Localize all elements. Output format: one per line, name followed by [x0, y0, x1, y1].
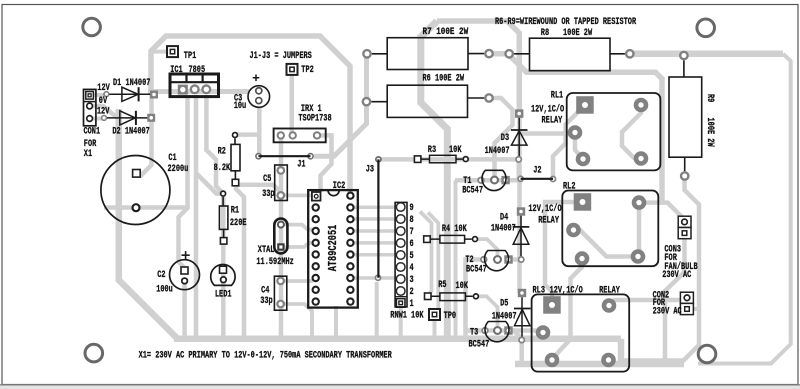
svg-text:12V: 12V	[97, 106, 110, 117]
wire IC2 to RNW1 link row 6 through J3 pad	[350, 276, 397, 280]
pad R5 right	[473, 293, 480, 300]
svg-text:1N4007: 1N4007	[491, 224, 516, 235]
wire IRX1 pin1 down through C5 XTAL C4 to ground bus	[279, 137, 284, 337]
svg-text:RNW1 10K: RNW1 10K	[390, 310, 423, 321]
svg-text:220E: 220E	[230, 218, 247, 229]
resistor R9 body	[669, 60, 702, 171]
svg-text:9: 9	[410, 203, 414, 214]
pad IRX1 pin 3	[313, 131, 321, 139]
pad R3 right	[462, 156, 469, 163]
wire IC1 left pad down to C2 plus	[179, 95, 188, 268]
pads IC2 left column	[312, 192, 321, 306]
pad D1 anode	[103, 91, 109, 97]
capacitor C3 body	[248, 75, 270, 108]
pad IC1 pin 3	[201, 84, 211, 94]
wire IC2 bottom stub to ground bus	[334, 306, 338, 339]
pad T1 collector square	[501, 176, 509, 184]
bottom window strip	[0, 384, 800, 385]
pad RL1 coil square	[576, 96, 594, 114]
resistor R3 body	[421, 155, 462, 163]
svg-text:2200u: 2200u	[168, 164, 189, 175]
svg-text:TSOP1738: TSOP1738	[298, 113, 331, 124]
pad C2 positive square	[181, 267, 188, 274]
pad D4 anode	[518, 256, 525, 263]
wire T3 collector to D5 anode	[508, 331, 522, 340]
pads RNW1 column	[395, 203, 407, 308]
pad D5 cathode square	[518, 289, 526, 297]
wire RL2 coil pad to RL3 coil pad	[545, 202, 583, 305]
pad D1 cathode square	[150, 91, 158, 99]
wire R2 bottom down to ground bus	[236, 186, 244, 339]
crystal XTAL body	[274, 219, 287, 254]
pad IRX1 pin 2	[289, 131, 297, 139]
svg-text:RELAY: RELAY	[538, 216, 559, 227]
pad R3 left square	[414, 156, 421, 163]
wire R4 right pad to T2 base	[475, 239, 498, 255]
pad D2 cathode square	[147, 114, 155, 122]
wire IC2 to RNW1 link row 1	[354, 206, 397, 210]
relay RL1 body	[567, 93, 661, 170]
pad R1 bottom square	[220, 238, 227, 245]
wire top ground feed to R8	[437, 21, 519, 114]
pad J3 top	[375, 156, 382, 163]
svg-text:BC547: BC547	[462, 185, 483, 196]
wire XTAL bottom to IC2 pin 4	[281, 243, 313, 247]
wire IC2 to RNW1 link row 5	[354, 253, 397, 257]
wire IC2 to RNW1 link row 2	[354, 217, 397, 221]
svg-text:R3: R3	[428, 145, 436, 156]
pad RL2 coil square	[574, 193, 592, 211]
pad RL3 top-right	[602, 298, 617, 313]
pad RL2 bottom-right	[631, 249, 646, 264]
pad RL2 bottom-left	[575, 251, 590, 266]
svg-text:6: 6	[410, 239, 414, 250]
wire ground bus horizontal	[174, 335, 621, 342]
wire CON3 bottom down to lower bus	[665, 234, 685, 365]
connector CON2 pads	[680, 292, 693, 314]
svg-text:J3: J3	[366, 165, 374, 176]
svg-text:R2: R2	[218, 146, 226, 157]
wire CON1 top pin to D1 anode	[90, 93, 106, 97]
pad TP2	[287, 64, 298, 75]
svg-text:33p: 33p	[260, 296, 273, 307]
wire T1 collector up to R6 right pad	[489, 98, 513, 176]
diode D3	[511, 118, 528, 156]
pad D3 anode	[515, 156, 522, 163]
svg-text:BC547: BC547	[466, 264, 487, 275]
svg-text:TP2: TP2	[301, 65, 314, 76]
pad T3 collector square	[504, 326, 512, 334]
pad T1 emitter	[477, 177, 484, 184]
pad R6 left	[362, 97, 372, 107]
pad TP0	[429, 309, 440, 320]
pad T3 emitter	[481, 327, 488, 334]
pad J1 right	[307, 153, 314, 160]
wire 12V column D3 D4 D5 cathode pads	[517, 114, 522, 293]
wire CON1 bottom pin to D2 anode	[90, 117, 104, 121]
svg-text:R6-R9=WIREWOUND OR TAPPED RESI: R6-R9=WIREWOUND OR TAPPED RESISTOR	[495, 17, 636, 28]
svg-text:D1 1N4007: D1 1N4007	[113, 78, 150, 89]
wire RL2 top-right down to bottom-right pad	[637, 203, 642, 257]
wire R5 right pad to T3 base	[476, 296, 498, 326]
wire R3 row J3 to D3 anode	[378, 157, 518, 162]
pad T2 emitter	[480, 256, 487, 263]
pad R4 right	[472, 236, 479, 243]
wire XTAL top to IC2 pin 5	[281, 225, 313, 230]
svg-text:RELAY: RELAY	[542, 115, 563, 126]
jumper J2	[521, 178, 553, 180]
svg-text:C5: C5	[263, 174, 271, 185]
resistor R8 body	[514, 38, 625, 70]
svg-text:8: 8	[410, 215, 414, 226]
svg-text:1N4007: 1N4007	[492, 311, 517, 322]
svg-text:CON1: CON1	[84, 127, 101, 138]
diode D4	[513, 216, 530, 256]
svg-text:R9: R9	[704, 94, 715, 102]
wire R1 LED1 column down to ground bus	[221, 195, 226, 339]
wire C3 negative down to J1 left pad	[257, 107, 262, 157]
pad C3 positive	[255, 87, 263, 95]
pad RL2 mid-left	[566, 223, 581, 238]
svg-text:5: 5	[410, 251, 414, 262]
pad LED1 anode square	[220, 266, 227, 273]
svg-text:LED1: LED1	[215, 289, 232, 300]
svg-text:R8: R8	[541, 28, 549, 39]
svg-text:TP1: TP1	[184, 51, 197, 62]
svg-text:7: 7	[410, 227, 414, 238]
svg-text:RL3: RL3	[533, 286, 546, 297]
svg-text:C4: C4	[261, 286, 269, 297]
svg-text:C1: C1	[168, 153, 176, 164]
wire T1 base row	[455, 178, 521, 183]
wire C4 bottom link	[281, 304, 312, 339]
pad J1 left	[255, 153, 262, 160]
svg-text:10u: 10u	[234, 101, 247, 112]
wire T1 emitter column	[454, 180, 458, 338]
wire right edge down	[698, 54, 791, 364]
wire R8 left pad diagonal to lower rail	[509, 55, 662, 203]
mounting hole top-right	[697, 19, 715, 37]
wire top-left vertical to TP1 junction	[151, 36, 350, 192]
wire RNW1 pin1 stub down	[399, 303, 403, 339]
pad RL1 top-right	[634, 98, 649, 113]
svg-text:TP0: TP0	[444, 311, 457, 322]
resistor R1 body	[219, 197, 228, 238]
connector CON1 body	[84, 89, 96, 125]
svg-text:12V,1C/O: 12V,1C/O	[550, 285, 583, 297]
resistor R5 body	[431, 293, 473, 301]
pad RL2 top-right	[632, 195, 647, 210]
pad T2 collector square	[504, 255, 512, 263]
pad RL1 bottom-right	[634, 151, 649, 166]
mounting hole bottom-right	[698, 345, 716, 363]
wire RL2 mid-left to bottom-right pad	[574, 230, 639, 257]
pad J3 bottom	[375, 274, 382, 281]
wire RL3 top-right pad to CON2 top	[609, 300, 681, 306]
wire C4 top to IC2 left pad	[281, 279, 313, 283]
pad D2 anode	[101, 115, 107, 121]
pad IRX1 pin 1	[277, 131, 285, 139]
svg-text:J1-J3 = JUMPERS: J1-J3 = JUMPERS	[250, 51, 312, 62]
relay RL3 body	[532, 294, 630, 371]
pad TP1	[167, 46, 178, 57]
capacitor C2 body	[170, 251, 200, 290]
wire T2 collector to D4 anode	[508, 257, 521, 262]
pad R7 right	[484, 49, 494, 59]
pad R8 right	[625, 49, 635, 59]
wire bus junction vertical	[618, 339, 625, 364]
wire IC2 to RNW1 link row 3	[354, 229, 397, 233]
pad D4 cathode square	[517, 207, 525, 215]
relay RL2 body	[562, 191, 658, 267]
svg-text:33p: 33p	[262, 189, 275, 200]
pad C5 bottom	[276, 191, 285, 200]
svg-text:D5: D5	[500, 299, 508, 310]
pad RL1 bottom-left	[576, 152, 591, 167]
wire branch to R2 top pad	[236, 132, 259, 137]
svg-text:0V: 0V	[99, 96, 107, 107]
svg-text:D3: D3	[501, 133, 509, 144]
svg-text:RL1: RL1	[551, 91, 564, 102]
wire RL2 bottom-left down into RL3 to bottom-left pad	[553, 259, 583, 359]
microcontroller IC2 body	[308, 190, 358, 308]
pad LED1 cathode	[220, 276, 227, 283]
pad T3 base	[493, 326, 502, 335]
jumper J1	[259, 155, 311, 157]
wire lower bus	[515, 361, 684, 368]
resistor network RNW1 body	[395, 202, 407, 307]
capacitor C1 body	[101, 156, 170, 225]
wire RNW1 to TP0 column	[428, 213, 438, 314]
pad R6 right	[484, 93, 494, 103]
pad R2 bottom square	[232, 179, 239, 186]
wire J1 right pad up to R6 R7 left pads	[314, 50, 367, 156]
regulator IC1 7805 body	[170, 74, 219, 97]
svg-text:4: 4	[410, 263, 414, 274]
pad IC1 pin 1 square	[178, 85, 188, 95]
pad R8 left	[504, 49, 514, 59]
wire CON1 middle pin to left vertical	[90, 106, 119, 119]
pad CON1 pin 2	[86, 102, 93, 109]
wire IRX1 out pad down to IC2 pin	[317, 135, 332, 192]
svg-text:8.2K: 8.2K	[214, 163, 231, 174]
svg-text:1: 1	[410, 299, 414, 310]
svg-text:12V,1C/O: 12V,1C/O	[531, 104, 564, 116]
svg-text:100E 2W: 100E 2W	[704, 118, 715, 147]
pad RL3 coil square	[543, 296, 561, 314]
wire IC2 to RNW1 link row 4	[354, 241, 397, 245]
pad R1 top	[220, 190, 227, 197]
mounting hole bottom-left	[85, 344, 103, 362]
svg-text:R7 100E 2W: R7 100E 2W	[423, 27, 469, 38]
wire wide ground vertical through R7 R6	[421, 21, 448, 339]
svg-text:XTAL: XTAL	[258, 245, 275, 256]
svg-text:AT89C2051: AT89C2051	[326, 225, 340, 272]
svg-text:X1: X1	[84, 149, 92, 160]
svg-text:R1: R1	[231, 206, 239, 217]
pad R5 left square	[425, 293, 432, 300]
pads IC2 right column	[346, 192, 354, 306]
resistor R7 body	[372, 38, 484, 70]
wire RL1 mid-left to bottom-left pad	[575, 133, 583, 159]
pad C4 bottom	[276, 300, 285, 309]
wire branch to TP1 pad	[151, 50, 169, 54]
wire T2 emitter left and down to ground bus	[466, 260, 484, 339]
pad R7 left	[362, 49, 372, 59]
pad CON1 pin 1 square	[86, 92, 94, 100]
pad C3 negative	[255, 97, 263, 105]
svg-text:10K: 10K	[449, 145, 462, 156]
svg-text:1N4007: 1N4007	[485, 146, 510, 157]
wire R8 right pad to R9 top	[630, 51, 783, 58]
wire R9 bottom down right side to lower bus	[621, 176, 699, 361]
wire left ground vertical and diagonal	[119, 109, 178, 339]
svg-text:R4 10K: R4 10K	[442, 224, 467, 235]
pad T1 base	[490, 176, 499, 185]
svg-text:J2: J2	[533, 165, 541, 176]
wire C2 negative down to ground bus	[182, 281, 187, 339]
wire inside RL1 right side	[622, 105, 641, 158]
svg-text:T3: T3	[470, 328, 478, 339]
pad R4 left square	[424, 236, 431, 243]
svg-text:2: 2	[410, 287, 414, 298]
diode D2	[107, 111, 147, 125]
svg-text:RL2: RL2	[563, 182, 576, 193]
wire R2 bottom to C5 lower pad	[236, 185, 281, 192]
svg-text:R5: R5	[438, 280, 446, 291]
pad C1 positive square	[133, 170, 141, 178]
capacitor C4 body	[274, 276, 286, 310]
mounting hole top-left	[83, 18, 101, 36]
wire J2 right pad up to RL1 coil pad	[553, 105, 585, 176]
pad D3 cathode square	[515, 109, 523, 117]
wire D3 anode down to J2 left pad	[516, 160, 521, 179]
svg-text:100u: 100u	[156, 285, 173, 296]
labels RNW1 pin numbers	[410, 203, 414, 310]
svg-text:230V AC: 230V AC	[653, 306, 682, 317]
transistor T3 body	[485, 322, 509, 342]
wire branch to R1 top pad	[196, 173, 223, 194]
pad CON1 pin 3	[86, 115, 93, 122]
svg-text:100E 2W: 100E 2W	[563, 28, 592, 39]
wire IC1 middle pad down to ground bus	[194, 95, 199, 339]
svg-text:12V,1C/O: 12V,1C/O	[528, 203, 561, 215]
svg-text:IC2: IC2	[333, 181, 346, 192]
pad RL1 mid-left	[568, 125, 583, 140]
svg-text:10K: 10K	[456, 281, 469, 292]
pad RL3 bottom-left	[545, 353, 560, 368]
diode D1	[109, 87, 150, 101]
transistor T1 body	[482, 170, 506, 190]
svg-text:230V AC: 230V AC	[662, 270, 691, 281]
wire J3 pad column to ground bus	[375, 282, 379, 339]
pad R9 bottom	[680, 171, 690, 181]
svg-text:D2 1N4007: D2 1N4007	[112, 127, 149, 138]
wire into RL1 mid-left pad	[520, 131, 574, 136]
svg-text:J1: J1	[297, 160, 305, 171]
wire C5 bottom to IC2 pin 1 row	[281, 193, 313, 197]
pad J2 right	[550, 176, 557, 183]
wire IC1 pad row horizontal	[148, 89, 249, 94]
wire T3 emitter row to RL3 mid-left pad	[466, 331, 543, 333]
pad C4 top	[276, 277, 285, 286]
pad C5 top	[276, 166, 285, 175]
jumper J3	[377, 159, 379, 277]
svg-text:IC1: IC1	[170, 65, 183, 76]
wire D5 cathode pad to lower bus	[519, 338, 524, 364]
pad D5 anode	[518, 337, 525, 344]
wire TP0 stub down	[433, 316, 437, 339]
LED1 body	[211, 264, 235, 285]
wire IC1 right pad down to R1 top	[206, 95, 223, 194]
svg-text:X1= 230V AC PRIMARY TO 12V-0-1: X1= 230V AC PRIMARY TO 12V-0-12V, 750mA …	[139, 350, 392, 361]
pad T2 base	[493, 255, 502, 264]
wire D1 D2 cathodes to C1 plus pad	[137, 95, 152, 176]
pad C1 negative	[131, 203, 140, 212]
svg-text:BC547: BC547	[469, 340, 490, 351]
wire CON2 bottom stub	[694, 307, 700, 311]
wire R7 right pad to R8 left pad	[489, 51, 509, 57]
transistor T2 body	[484, 251, 508, 271]
svg-text:7805: 7805	[189, 65, 206, 76]
wire TP2 down then x281 bus through C5 XTAL C4 to ground bus	[290, 72, 295, 134]
pad R9 top	[679, 51, 689, 61]
connector CON3 pads	[678, 216, 691, 239]
svg-text:12V: 12V	[97, 83, 110, 94]
capacitor C5 body	[275, 165, 288, 201]
svg-text:3: 3	[410, 275, 414, 286]
pad RL3 bottom-right	[601, 353, 616, 368]
svg-text:C2: C2	[157, 270, 165, 281]
IR receiver IRX1 body	[274, 129, 326, 143]
resistor R6 body	[371, 85, 484, 117]
wire C1 negative row	[104, 205, 188, 210]
pad J2 left	[517, 175, 524, 182]
svg-text:D4: D4	[500, 212, 508, 223]
svg-text:RELAY: RELAY	[599, 286, 620, 297]
pad C2 negative	[181, 277, 188, 284]
pad RL3 mid-left	[536, 325, 551, 340]
wire RNW1 to R4 left pad	[420, 212, 432, 296]
diode D5	[514, 297, 531, 336]
svg-text:R6 100E 2W: R6 100E 2W	[423, 73, 465, 84]
wire RL2 top-right to CON3 top	[639, 203, 685, 220]
pad IC1 pin 2	[190, 84, 200, 94]
resistor R4 body	[430, 235, 471, 243]
pad R2 top	[232, 132, 239, 139]
svg-text:11.592MHz: 11.592MHz	[256, 257, 293, 268]
pad XTAL top	[277, 221, 285, 229]
pad XTAL bottom	[277, 243, 284, 250]
resistor R2 body	[231, 138, 240, 179]
